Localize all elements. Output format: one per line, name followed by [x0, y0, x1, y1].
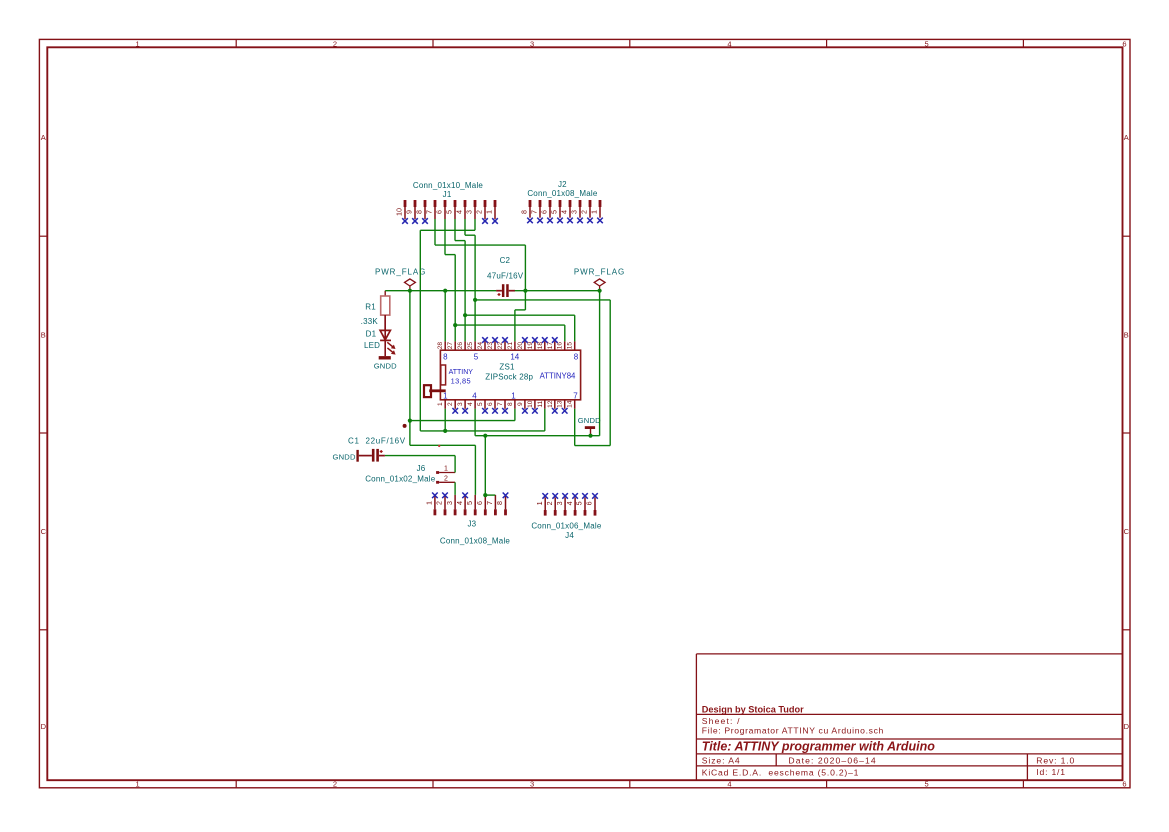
svg-text:GNDD: GNDD — [374, 362, 397, 371]
socket ZS1 top pin 27 — [447, 341, 455, 350]
svg-text:9: 9 — [405, 210, 414, 214]
svg-text:Date: 2020–06–14: Date: 2020–06–14 — [788, 756, 876, 766]
svg-text:A: A — [41, 133, 46, 142]
svg-text:1: 1 — [535, 501, 544, 505]
connector J3 pin 4 — [455, 495, 467, 515]
title block kicad version field — [702, 768, 859, 778]
connector J3 pin 7 — [485, 495, 497, 515]
socket ZS1 bottom pin 5 — [477, 400, 485, 409]
svg-text:10: 10 — [395, 208, 404, 216]
svg-text:5: 5 — [550, 210, 559, 214]
wire pin 14 loop bottom — [575, 445, 611, 447]
svg-text:21: 21 — [507, 342, 514, 350]
svg-text:8: 8 — [574, 352, 579, 361]
svg-text:4: 4 — [560, 210, 569, 214]
socket ZS1 top pin 15 — [567, 341, 575, 350]
connector J4 pin 5 — [575, 498, 587, 516]
svg-text:5: 5 — [925, 780, 929, 789]
connector J3 Conn_01x08_Male labels — [440, 520, 511, 546]
no-connect X on J3 pin 4 — [462, 493, 468, 499]
svg-text:1: 1 — [444, 466, 448, 473]
no-connect X on ZS1 pin 2 — [452, 408, 458, 414]
svg-text:2: 2 — [545, 501, 554, 505]
connector J1 pin 7 — [425, 200, 437, 219]
svg-text:ATTINY: ATTINY — [449, 369, 474, 376]
svg-text:5: 5 — [474, 352, 479, 361]
svg-text:6: 6 — [1122, 39, 1126, 48]
wire long vertical net J1.3 — [419, 230, 421, 431]
connector J1 pin 6 — [435, 200, 447, 219]
socket ZS1 top pin 19 — [527, 341, 535, 350]
connector J3 pin 1 — [425, 495, 437, 515]
wire ZS1 pin 8 drop — [514, 409, 516, 421]
junction at 409.9,290.7 — [408, 289, 412, 293]
no-connect X on J4 pin 6 — [592, 493, 598, 499]
socket ZS1 bottom pin 10 — [527, 400, 535, 409]
svg-text:6: 6 — [1122, 780, 1126, 789]
svg-text:ZS1: ZS1 — [499, 363, 515, 372]
wire horizontal to ZS1 pin 16 — [455, 324, 565, 326]
svg-text:J6: J6 — [417, 464, 426, 473]
junction at 475.1,299.9 — [473, 298, 477, 302]
socket ZS1 top pin 17 — [547, 341, 555, 350]
connector J3 pin 3 — [445, 495, 457, 515]
no-connect X on J4 pin 1 — [542, 493, 548, 499]
svg-text:7: 7 — [425, 210, 434, 214]
wire power rail right segment — [515, 290, 600, 292]
socket ZS1 ZIPSock 28p body — [440, 350, 580, 400]
svg-text:4: 4 — [455, 501, 464, 505]
wire power rail left segment — [385, 290, 496, 292]
wire bottom horizontal to J3 pin 5 — [410, 444, 476, 446]
connector J1 pin 5 — [445, 200, 457, 219]
svg-text:C: C — [1124, 527, 1130, 536]
wire J1 pin 4 drop — [464, 219, 466, 235]
svg-text:Conn_01x06_Male: Conn_01x06_Male — [531, 522, 602, 531]
power flag PWR_FLAG right — [574, 267, 625, 290]
svg-text:C2: C2 — [500, 256, 511, 265]
no-connect X on ZS1 pin 22 — [502, 337, 508, 343]
wire jog to J3 pin 7 — [485, 494, 495, 496]
connector J1 pin 1 — [485, 200, 497, 219]
socket ZS1 top pin 20 — [517, 341, 525, 350]
ERC marker dot small — [438, 445, 440, 447]
connector J2 pin 6 — [540, 200, 552, 218]
wire drop to J3 pin 5 — [474, 445, 476, 495]
title block sheet field — [702, 716, 741, 726]
svg-text:1: 1 — [443, 392, 448, 401]
connector J2 Conn_01x08_Male labels — [527, 180, 598, 198]
svg-text:6: 6 — [487, 402, 494, 406]
no-connect X on ZS1 pin 13 — [562, 408, 568, 414]
junction at 409.9,420.6 — [408, 419, 412, 423]
svg-text:KiCad E.D.A. eeschema (5.0.2): KiCad E.D.A. eeschema (5.0.2)–1 — [702, 768, 859, 778]
svg-text:1: 1 — [590, 210, 599, 214]
title block comment text: Design by Stoica Tudor — [702, 705, 804, 715]
svg-text:8: 8 — [520, 210, 529, 214]
svg-text:Rev: 1.0: Rev: 1.0 — [1036, 756, 1075, 766]
socket ZS1 top pin 23 — [487, 341, 495, 350]
svg-text:C1 22uF/16V: C1 22uF/16V — [348, 437, 406, 446]
svg-text:14: 14 — [510, 352, 519, 361]
socket ZS1 bottom pin 2 — [447, 400, 455, 409]
socket ZS1 top pin 21 — [507, 341, 515, 350]
svg-text:47uF/16V: 47uF/16V — [487, 272, 524, 281]
socket ZS1 top pin 24 — [477, 341, 485, 350]
capacitor C1 22uF/16V — [348, 437, 406, 462]
connector J3 pin 8 — [495, 495, 507, 515]
no-connect X on ZS1 pin 5 — [482, 408, 488, 414]
junction at 445.2,430.9 — [443, 429, 447, 433]
socket ZS1 bottom pin 8 — [507, 400, 515, 409]
connector J1 pin 8 — [415, 200, 427, 219]
power symbol GNDD at C1 — [333, 450, 359, 462]
svg-text:4: 4 — [467, 402, 474, 406]
connector J2 pin 2 — [580, 200, 592, 218]
no-connect X on J2 pin 4 — [567, 218, 573, 224]
connector J1 pin 2 — [475, 200, 487, 219]
svg-text:PWR_FLAG: PWR_FLAG — [574, 267, 625, 276]
wire horizontal to pin 14 loop — [475, 299, 610, 301]
title block date field — [788, 756, 876, 766]
wire ZS1 pin 8 horizontal — [410, 420, 515, 422]
no-connect X on J1 pin 2 — [482, 218, 488, 224]
no-connect X on ZS1 pin 24 — [482, 337, 488, 343]
svg-text:5: 5 — [465, 501, 474, 505]
svg-text:2: 2 — [333, 780, 337, 789]
svg-text:D1: D1 — [366, 329, 377, 338]
wire vertical to ZS1 pin 25 — [474, 235, 476, 341]
svg-text:4: 4 — [455, 210, 464, 214]
connector J3 pin 6 — [475, 495, 487, 515]
svg-text:6: 6 — [475, 501, 484, 505]
svg-text:1: 1 — [437, 402, 444, 406]
connector J6 pin 2 — [436, 475, 455, 483]
svg-text:16: 16 — [557, 342, 564, 350]
connector J4 pin 3 — [555, 498, 567, 516]
socket ZS1 bottom pin 4 — [467, 400, 475, 409]
svg-text:LED: LED — [364, 341, 380, 350]
LED D1 — [364, 315, 396, 356]
no-connect X on ZS1 pin 18 — [542, 337, 548, 343]
no-connect X on J4 pin 3 — [562, 493, 568, 499]
no-connect X on J2 pin 5 — [557, 218, 563, 224]
title block rev field — [1036, 756, 1075, 766]
svg-text:8: 8 — [507, 402, 514, 406]
connector J4 Conn_01x06_Male labels — [531, 522, 602, 540]
wire J1 pin 7 drop — [434, 219, 436, 245]
svg-text:ATTINY84: ATTINY84 — [540, 372, 576, 381]
svg-text:9: 9 — [517, 402, 524, 406]
junction at 465.1,315.2 — [463, 313, 467, 317]
wire J6 pin 2 to J3 pin 3 — [454, 482, 456, 495]
no-connect X on J1 pin 10 — [402, 218, 408, 224]
wire horizontal to ZS1 pin 15 — [465, 314, 575, 316]
no-connect X on J1 pin 9 — [412, 218, 418, 224]
no-connect X on J1 pin 8 — [422, 218, 428, 224]
junction at 485.3,495.1 — [483, 493, 487, 497]
ERC marker dot large — [403, 424, 407, 428]
svg-text:GNDD: GNDD — [578, 416, 601, 425]
svg-text:A: A — [1124, 133, 1129, 142]
svg-text:6: 6 — [585, 501, 594, 505]
svg-text:GNDD: GNDD — [333, 452, 356, 461]
svg-text:B: B — [1124, 331, 1129, 340]
socket ZS1 value ZIPSock 28p — [485, 372, 533, 381]
socket ZS1 bottom pin 7 — [497, 400, 505, 409]
power symbol GNDD under D1 — [374, 356, 397, 371]
junction at 525.4,290.7 — [523, 289, 527, 293]
no-connect X on J2 pin 6 — [547, 218, 553, 224]
connector J1 pin 9 — [405, 200, 417, 219]
connector J4 pin 1 — [535, 498, 547, 516]
no-connect X on ZS1 pin 19 — [532, 337, 538, 343]
svg-text:3: 3 — [530, 780, 534, 789]
socket ZS1 top pin 28 — [437, 341, 445, 350]
svg-text:1: 1 — [485, 210, 494, 214]
svg-text:D: D — [41, 722, 47, 731]
svg-text:25: 25 — [467, 342, 474, 350]
svg-text:2: 2 — [444, 475, 448, 482]
wire jog to ZS1 pin 21 — [515, 309, 526, 311]
connector J2 pin 7 — [530, 200, 542, 218]
svg-text:2: 2 — [333, 39, 337, 48]
svg-text:15: 15 — [567, 342, 574, 350]
wire ZS1 pin 15 drop — [574, 315, 576, 341]
svg-text:2: 2 — [580, 210, 589, 214]
wire ZS1 pin 16 drop — [564, 325, 566, 341]
wire right power vertical — [599, 291, 601, 436]
no-connect X on ZS1 pin 20 — [522, 337, 528, 343]
connector J1 pin 3 — [465, 200, 477, 219]
socket ZS1 top pin 16 — [557, 341, 565, 350]
svg-text:Design by Stoica Tudor: Design by Stoica Tudor — [702, 705, 804, 715]
no-connect X on ZS1 pin 12 — [552, 408, 558, 414]
no-connect X on J2 pin 8 — [527, 218, 533, 224]
svg-text:13: 13 — [557, 400, 564, 408]
no-connect X on ZS1 pin 9 — [522, 408, 528, 414]
svg-text:6: 6 — [435, 210, 444, 214]
svg-text:7: 7 — [573, 392, 578, 401]
svg-text:27: 27 — [447, 342, 454, 350]
svg-text:5: 5 — [925, 39, 929, 48]
svg-text:3: 3 — [530, 39, 534, 48]
wire ZS1 pin 14 drop — [574, 409, 576, 446]
svg-text:3: 3 — [570, 210, 579, 214]
wire J1 pin 7 jog right — [435, 244, 525, 246]
wire J1 pin 3 jog left — [420, 229, 475, 231]
svg-text:8: 8 — [415, 210, 424, 214]
svg-text:R1: R1 — [365, 303, 376, 312]
svg-text:7: 7 — [497, 402, 504, 406]
svg-text:5: 5 — [575, 501, 584, 505]
svg-text:D: D — [1124, 722, 1130, 731]
connector J6 Conn_01x02_Male labels — [365, 464, 436, 483]
svg-text:J4: J4 — [565, 531, 574, 540]
socket ZS1 bottom pin 14 — [567, 400, 575, 409]
wire vertical right of C2 — [524, 245, 526, 310]
no-connect X on J2 pin 2 — [587, 218, 593, 224]
svg-text:Conn_01x10_Male: Conn_01x10_Male — [413, 181, 484, 190]
socket ZS1 bottom pin 9 — [517, 400, 525, 409]
svg-text:28: 28 — [437, 342, 444, 350]
svg-text:11: 11 — [537, 400, 544, 407]
wire J1 pin 6 drop — [444, 219, 446, 255]
connector J2 pin 4 — [560, 200, 572, 218]
svg-text:2: 2 — [475, 210, 484, 214]
connector J2 pin 8 — [520, 200, 532, 218]
socket ZS1 top pin 25 — [467, 341, 475, 350]
socket ZS1 bottom pin 1 — [437, 400, 445, 409]
svg-text:Sheet: /: Sheet: / — [702, 716, 741, 726]
wire drop to J3 pin 6 — [484, 436, 486, 495]
socket ZS1 label ATTINY84 — [540, 372, 576, 381]
title block title field — [702, 739, 935, 753]
wire vertical to ZS1 pin 26 — [464, 241, 466, 342]
connector J6 pin 1 — [436, 466, 455, 474]
svg-text:12: 12 — [547, 400, 554, 408]
svg-text:Title: ATTINY programmer with: Title: ATTINY programmer with Arduino — [702, 739, 935, 753]
no-connect X on J2 pin 1 — [597, 218, 603, 224]
svg-text:7: 7 — [485, 501, 494, 505]
power flag PWR_FLAG left — [375, 267, 426, 290]
svg-text:B: B — [41, 331, 46, 340]
junction at 599.6,290.7 — [598, 289, 602, 293]
connector J2 pin 1 — [590, 200, 602, 218]
wire J1 pin 5 jog right — [455, 240, 465, 242]
svg-text:2: 2 — [435, 501, 444, 505]
wire left power vertical — [409, 291, 411, 446]
svg-text:Conn_01x02_Male: Conn_01x02_Male — [365, 474, 436, 483]
socket ZS1 bottom pin 11 — [537, 400, 545, 409]
socket ZS1 top pin 26 — [457, 341, 465, 350]
connector J3 pin 2 — [435, 495, 447, 515]
wire horizontal ZS1 pins 1-11 — [420, 430, 545, 432]
no-connect X on J3 pin 1 — [432, 493, 438, 499]
no-connect X on J2 pin 7 — [537, 218, 543, 224]
svg-text:5: 5 — [445, 210, 454, 214]
svg-text:14: 14 — [567, 400, 574, 408]
svg-text:ZIPSock 28p: ZIPSock 28p — [485, 372, 533, 381]
title block file field — [702, 726, 884, 736]
svg-text:10: 10 — [527, 400, 534, 408]
svg-text:8: 8 — [443, 352, 448, 361]
wire C1 vertical to J6 pin 1 — [454, 456, 456, 473]
connector J2 pin 3 — [570, 200, 582, 218]
wire ZS1 pin 28 drop from rail — [444, 291, 446, 342]
no-connect X on ZS1 pin 10 — [532, 408, 538, 414]
svg-text:File: Programator ATTINY cu Ar: File: Programator ATTINY cu Arduino.sch — [702, 726, 884, 736]
svg-text:8: 8 — [495, 501, 504, 505]
no-connect X on J4 pin 2 — [552, 493, 558, 499]
svg-text:5: 5 — [477, 402, 484, 406]
connector J4 pin 2 — [545, 498, 557, 516]
socket ZS1 bottom pin 13 — [557, 400, 565, 409]
connector J3 pin 5 — [465, 495, 477, 515]
no-connect X on J3 pin 2 — [442, 493, 448, 499]
connector J4 pin 6 — [585, 498, 597, 516]
svg-text:J1: J1 — [443, 190, 452, 199]
socket ZS1 lever rectangle — [441, 365, 446, 385]
socket ZS1 polarity key handle — [424, 385, 446, 397]
svg-text:1: 1 — [425, 501, 434, 505]
title block frame — [696, 654, 1122, 780]
svg-text:4: 4 — [472, 392, 477, 401]
svg-text:1: 1 — [136, 39, 140, 48]
socket ZS1 bottom pin 12 — [547, 400, 555, 409]
wire ground horizontal — [475, 435, 599, 437]
connector J4 pin 4 — [565, 498, 577, 516]
socket ZS1 bottom pin 6 — [487, 400, 495, 409]
no-connect X on ZS1 pin 6 — [492, 408, 498, 414]
socket ZS1 inner pin name labels — [443, 352, 579, 400]
wire ZS1 pin 21 drop — [514, 310, 516, 342]
svg-text:4: 4 — [565, 501, 574, 505]
svg-text:PWR_FLAG: PWR_FLAG — [375, 267, 426, 276]
connector J1 Conn_01x10_Male labels — [413, 181, 484, 199]
connector J1 pin 10 — [395, 200, 407, 219]
svg-text:C: C — [41, 527, 47, 536]
svg-text:J2: J2 — [558, 180, 567, 189]
no-connect X on J4 pin 5 — [582, 493, 588, 499]
wire vertical to ZS1 pin 27 — [454, 255, 456, 342]
svg-text:Conn_01x08_Male: Conn_01x08_Male — [440, 537, 511, 546]
no-connect X on J2 pin 3 — [577, 218, 583, 224]
power symbol GNDD right of ZS1 — [578, 416, 601, 436]
svg-text:26: 26 — [457, 342, 464, 350]
connector J1 pin 4 — [455, 200, 467, 219]
svg-text:J3: J3 — [467, 520, 476, 529]
svg-text:3: 3 — [465, 210, 474, 214]
no-connect X on ZS1 pin 3 — [462, 408, 468, 414]
svg-text:1: 1 — [511, 392, 516, 401]
no-connect X on ZS1 pin 7 — [502, 408, 508, 414]
svg-text:1: 1 — [136, 780, 140, 789]
svg-text:Size: A4: Size: A4 — [702, 756, 741, 766]
no-connect X on J3 pin 8 — [503, 493, 509, 499]
socket ZS1 bottom pin 3 — [457, 400, 465, 409]
svg-text:7: 7 — [530, 210, 539, 214]
socket ZS1 reference ZS1 — [499, 363, 515, 372]
socket ZS1 label ATTINY 13,85 — [449, 369, 474, 385]
no-connect X on ZS1 pin 23 — [492, 337, 498, 343]
no-connect X on J1 pin 1 — [492, 218, 498, 224]
wire ZS1 pin 4 drop — [474, 409, 476, 436]
socket ZS1 top pin 22 — [497, 341, 505, 350]
connector J2 pin 5 — [550, 200, 562, 218]
svg-text:4: 4 — [727, 780, 731, 789]
svg-text:Conn_01x08_Male: Conn_01x08_Male — [527, 189, 598, 198]
junction at 445.2,290.7 — [443, 289, 447, 293]
capacitor C2 47uF/16V — [487, 256, 524, 297]
svg-text:3: 3 — [555, 501, 564, 505]
resistor R1 — [361, 291, 390, 331]
svg-text:4: 4 — [727, 39, 731, 48]
wire J1 pin 6 jog right — [445, 254, 455, 256]
svg-text:3: 3 — [457, 402, 464, 406]
title block size field — [702, 756, 741, 766]
title block id field — [1036, 767, 1066, 777]
wire J1 pin 5 drop — [454, 219, 456, 241]
svg-text:.33K: .33K — [361, 317, 379, 326]
svg-text:Id: 1/1: Id: 1/1 — [1036, 767, 1066, 777]
junction at 590.5,435.7 — [588, 434, 592, 438]
junction at 455.2,325.1 — [453, 323, 457, 327]
wire ZS1 pin 11 drop — [544, 409, 546, 431]
wire ZS1 pin 1 drop — [444, 409, 446, 431]
svg-text:13,85: 13,85 — [451, 376, 471, 385]
svg-text:2: 2 — [447, 402, 454, 406]
